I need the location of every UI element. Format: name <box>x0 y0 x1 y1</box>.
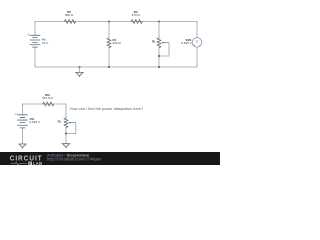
resistor R1 vertical <box>107 38 111 48</box>
wiper arrow RL bottom <box>70 122 76 124</box>
label R2 500 ohm <box>65 10 74 17</box>
wire RL branch (bottom circuit) <box>65 104 67 134</box>
voltmeter VM1 <box>192 38 202 48</box>
node R1 bottom dot <box>108 66 110 68</box>
ground (bottom RL) <box>62 144 70 149</box>
footer bar <box>0 152 220 165</box>
logo bolt box <box>28 162 32 165</box>
node wiper junction dot <box>158 55 160 57</box>
resistor Rth <box>43 102 54 106</box>
resistor R2 <box>65 20 76 24</box>
battery Vth <box>15 113 27 128</box>
wiper arrow RL top <box>163 42 169 44</box>
node RL bottom rail dot <box>158 66 160 68</box>
potentiometer RL (bottom) <box>64 118 68 128</box>
resistor R3 <box>131 20 142 24</box>
wire RL ground stem <box>65 134 67 144</box>
label R1 330 ohm <box>113 38 122 45</box>
wire RL branch <box>158 22 160 68</box>
node B dot <box>158 21 160 23</box>
label Vs 10 V <box>42 38 48 45</box>
wire battery Vth leads <box>22 104 24 144</box>
wire R1 branch <box>108 22 110 68</box>
ground (top circuit) <box>79 67 81 72</box>
wire wiper loop <box>159 43 169 56</box>
ground (battery Vth) <box>19 144 27 149</box>
wire wiper loop (bottom) <box>66 123 76 134</box>
potentiometer RL (top) <box>157 38 161 48</box>
label Rth 567.5 ohm <box>42 93 53 100</box>
wire bottom rail <box>35 66 197 68</box>
wire voltmeter leads <box>196 22 198 68</box>
node A dot <box>108 21 110 23</box>
wire top rail (bottom circuit) <box>23 103 67 105</box>
wire top rail <box>35 21 197 23</box>
battery Vs <box>28 34 40 47</box>
label Vth 9.625 V <box>30 117 40 124</box>
node ground junction dot <box>79 66 81 68</box>
label VM1 0.625 V <box>181 38 192 45</box>
wire battery Vs leads <box>34 22 36 68</box>
label R3 470 ohm <box>132 10 141 17</box>
node wiper junction dot (bottom) <box>65 133 67 135</box>
svg-text:LAB: LAB <box>33 161 42 165</box>
logo waveform <box>11 162 27 165</box>
svg-text:http://circuitlab.com/c/744pax: http://circuitlab.com/c/744pax <box>47 157 102 162</box>
